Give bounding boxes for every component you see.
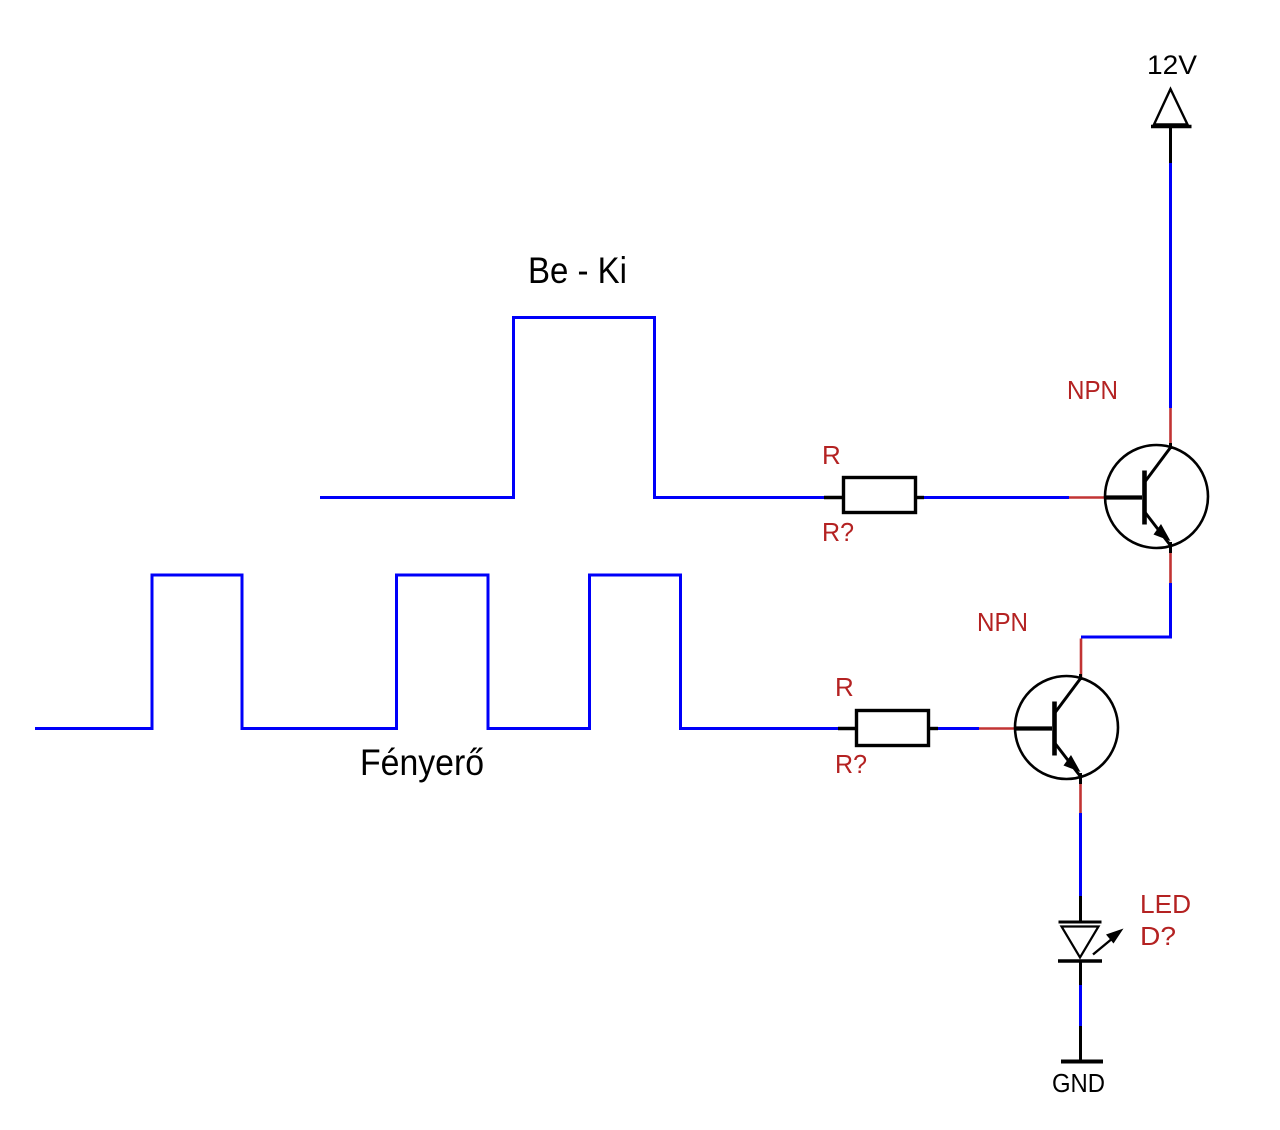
transistor Q2: [1014, 674, 1118, 784]
wire Q2 collector pin (red): [1080, 639, 1083, 678]
transistor Q1: [1104, 443, 1208, 553]
svg-text:R?: R?: [835, 749, 867, 779]
wire LED anode lead (black): [1079, 896, 1082, 922]
wire waveform Be-Ki (blue square pulse): [320, 318, 825, 498]
LED D? symbol: [1058, 922, 1124, 961]
power symbol 12V: [1151, 89, 1192, 163]
wire GND lead (black): [1079, 1026, 1082, 1060]
resistor R1: [824, 478, 924, 513]
wire Q2 base pin (red): [979, 727, 1015, 730]
svg-text:LED: LED: [1140, 889, 1191, 919]
svg-text:GND: GND: [1052, 1068, 1105, 1098]
wire 12V rail (blue vertical): [1169, 163, 1172, 408]
wire R2 to Q2 base (blue): [938, 727, 979, 730]
svg-text:Be - Ki: Be - Ki: [528, 250, 627, 291]
wire LED cathode lead (black): [1079, 961, 1082, 985]
wire Q2 emitter pin (red): [1079, 784, 1082, 813]
ground: [1061, 1060, 1103, 1064]
svg-text:R: R: [822, 440, 841, 470]
svg-text:R?: R?: [822, 517, 854, 547]
svg-text:D?: D?: [1140, 921, 1176, 951]
wire Q1 emitter to Q2 collector (blue): [1081, 583, 1171, 637]
wire R1 to Q1 base (blue): [924, 496, 1069, 499]
wire Q1 collector pin (red): [1169, 408, 1172, 446]
svg-text:12V: 12V: [1147, 50, 1197, 80]
svg-text:R: R: [835, 672, 854, 702]
wire LED to GND (blue): [1079, 985, 1082, 1026]
wire Q1 emitter pin (red): [1169, 553, 1172, 583]
svg-text:NPN: NPN: [1067, 375, 1118, 405]
wire waveform Fényerő (blue square pulses): [35, 575, 838, 729]
svg-text:Fényerő: Fényerő: [360, 742, 484, 783]
wire Q1 base pin (red): [1069, 496, 1105, 499]
resistor R2: [838, 711, 938, 746]
svg-text:NPN: NPN: [977, 607, 1028, 637]
wire Q2 emitter to LED (blue): [1079, 813, 1082, 896]
